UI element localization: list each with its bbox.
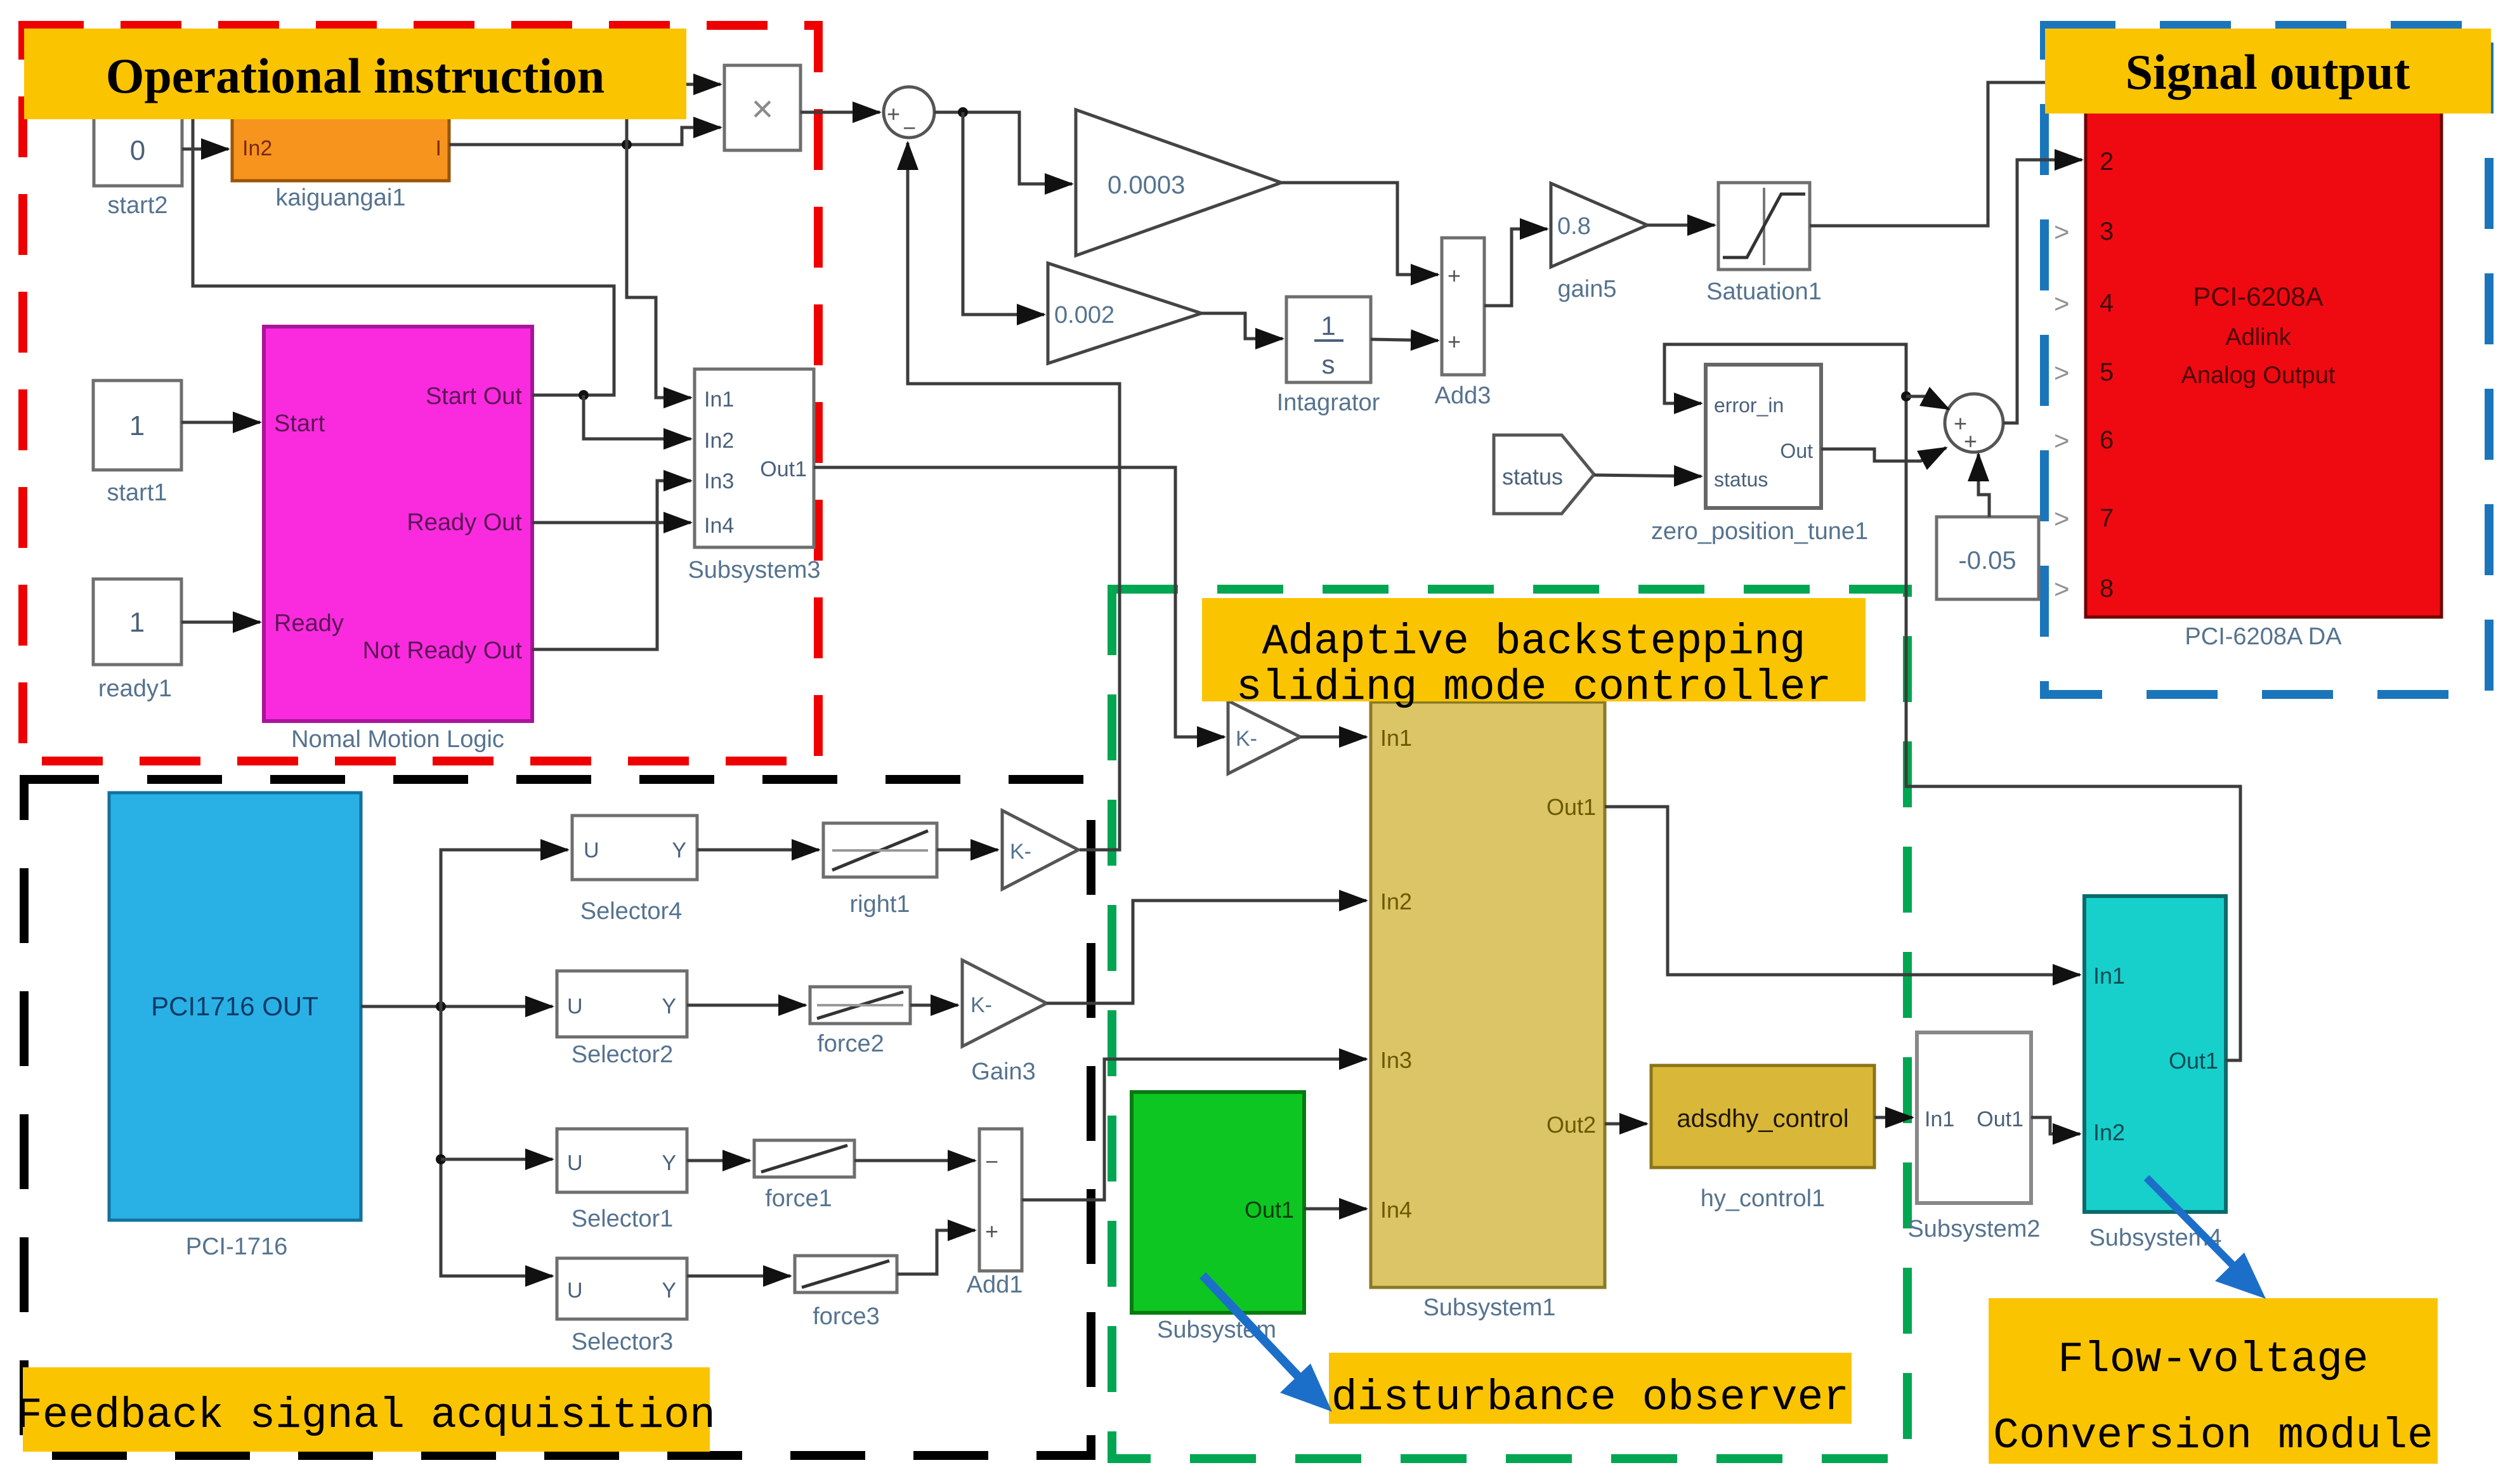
svg-text:0.0003: 0.0003 <box>1108 171 1185 199</box>
svg-text:Not Ready Out: Not Ready Out <box>363 637 523 664</box>
svg-text:Intagrator: Intagrator <box>1277 389 1380 416</box>
svg-text:U: U <box>567 1279 583 1303</box>
label disturbance observer <box>1329 1353 1852 1424</box>
svg-text:force3: force3 <box>813 1303 880 1330</box>
subsystem Subsystem4 <box>2084 896 2226 1251</box>
svg-text:In1: In1 <box>1925 1107 1954 1131</box>
subsystem zero_position_tune1 <box>1651 365 1868 545</box>
svg-text:×: × <box>751 88 773 130</box>
wire -0.05 to sum2 bottom <box>1978 454 1989 517</box>
wire start2 to kaiguangai1 In2 <box>182 148 228 151</box>
svg-text:8: 8 <box>2100 575 2114 602</box>
wire adsdhy_control to Subsystem2 <box>1874 1116 1912 1119</box>
subsystem adsdhy_control / hy_control1 <box>1651 1065 1874 1212</box>
svg-text:+: + <box>985 1218 998 1244</box>
wire Not Ready Out to Subsystem3 In3 <box>532 481 691 649</box>
svg-text:s: s <box>1322 349 1335 379</box>
svg-text:Ready Out: Ready Out <box>407 509 522 536</box>
saturation Satuation1 <box>1706 183 1822 305</box>
wire Selector1 to force1 <box>687 1159 750 1162</box>
selector Selector3 <box>557 1258 687 1355</box>
label Feedback signal acquisition <box>16 1367 716 1452</box>
integrator Intagrator <box>1277 297 1380 416</box>
label Operational instruction <box>24 29 686 119</box>
wire zero_position_tune1 Out to sum2 <box>1821 448 1946 461</box>
wire force3 to Add1 plus <box>897 1230 975 1274</box>
svg-text:K-: K- <box>1010 840 1031 864</box>
subsystem Subsystem1 <box>1371 702 1605 1321</box>
svg-text:U: U <box>567 994 583 1019</box>
svg-text:PCI-1716: PCI-1716 <box>186 1233 288 1260</box>
svg-text:+: + <box>1448 329 1461 355</box>
svg-text:In4: In4 <box>1380 1197 1412 1223</box>
wire Subsystem4 Out1 back to zero_position_tune1 error_in <box>1664 344 2240 1060</box>
wire force1 to Add1 minus <box>854 1159 975 1162</box>
svg-text:U: U <box>567 1151 583 1175</box>
black dashed group box: Feedback signal acquisition region <box>24 779 1091 1455</box>
wire status tag to zero_position_tune1 status <box>1594 475 1701 476</box>
adder Add1 <box>967 1129 1023 1298</box>
svg-text:7: 7 <box>2100 504 2114 532</box>
gain 0.0003 <box>1076 110 1281 256</box>
svg-text:+: + <box>887 101 900 127</box>
svg-text:+: + <box>1964 428 1977 454</box>
svg-text:In2: In2 <box>1380 888 1412 914</box>
svg-text:Add1: Add1 <box>967 1272 1023 1298</box>
svg-text:zero_position_tune1: zero_position_tune1 <box>1651 518 1868 545</box>
svg-text:Out1: Out1 <box>1977 1107 2023 1131</box>
wire position feedback from right1 gain to sum1 minus <box>908 143 1120 850</box>
svg-text:Feedback signal acquisition: Feedback signal acquisition <box>16 1391 716 1440</box>
svg-text:Out2: Out2 <box>1546 1112 1596 1138</box>
svg-text:Selector3: Selector3 <box>572 1329 674 1355</box>
node junction after sum1 <box>958 107 968 117</box>
wire gain 0.0003 to Add3 top <box>1281 183 1438 275</box>
svg-text:adsdhy_control: adsdhy_control <box>1677 1105 1848 1133</box>
svg-text:Analog Output: Analog Output <box>2181 362 2336 389</box>
wire right1 to K- gain <box>937 849 998 852</box>
svg-text:hy_control1: hy_control1 <box>1701 1185 1825 1212</box>
svg-text:3: 3 <box>2100 218 2114 245</box>
svg-text:Out1: Out1 <box>760 457 807 481</box>
svg-text:In2: In2 <box>242 136 272 160</box>
svg-text:PCI-6208A: PCI-6208A <box>2193 282 2323 311</box>
svg-text:Out1: Out1 <box>1546 794 1596 820</box>
svg-text:In2: In2 <box>2093 1119 2125 1145</box>
red dashed group box: Operational instruction region <box>23 25 818 761</box>
sum1 circle <box>884 87 934 141</box>
constant ready1 <box>93 579 181 702</box>
svg-text:In1: In1 <box>1380 725 1412 751</box>
annotation arrow to Flow-voltage label <box>2147 1178 2266 1299</box>
svg-text:>: > <box>2054 426 2070 455</box>
wire start1 to Start <box>181 421 260 424</box>
node junction on I wire <box>622 140 632 150</box>
sum2 circle <box>1945 394 2003 454</box>
svg-text:Y: Y <box>662 1279 676 1303</box>
subsystem green Subsystem (disturbance observer) <box>1132 1092 1304 1343</box>
svg-text:In2: In2 <box>704 429 734 453</box>
svg-text:−: − <box>985 1149 998 1175</box>
wire force2 to Gain3 <box>910 1004 958 1007</box>
svg-text:Flow-voltage: Flow-voltage <box>2058 1336 2369 1384</box>
svg-text:Out: Out <box>1780 439 1813 462</box>
wire Subsystem2 to Subsystem4 In2 <box>2031 1117 2080 1134</box>
svg-text:Selector2: Selector2 <box>572 1041 674 1068</box>
blue dashed group box: Signal output region <box>2044 25 2489 694</box>
wire Subsystem3 Out1 to K- gain <box>814 467 1224 737</box>
svg-text:>: > <box>2054 217 2070 247</box>
subsystem Subsystem2 <box>1907 1032 2040 1242</box>
wire branch to sum2 top input <box>1906 396 1949 409</box>
constant start1 <box>93 381 181 506</box>
svg-text:2: 2 <box>2100 148 2114 176</box>
wire Subsystem1 Out2 to adsdhy_control <box>1605 1123 1647 1126</box>
selector Selector2 <box>557 971 687 1068</box>
wire Selector3 to force3 <box>687 1275 790 1278</box>
svg-text:Add3: Add3 <box>1435 382 1491 409</box>
svg-text:error_in: error_in <box>1714 394 1784 417</box>
svg-text:Subsystem3: Subsystem3 <box>688 557 820 583</box>
wire Satuation1 to PCI-6208A port1 <box>1810 82 2082 226</box>
output device PCI-6208A DA <box>2054 101 2441 650</box>
svg-text:1: 1 <box>1321 311 1335 341</box>
svg-text:Satuation1: Satuation1 <box>1706 278 1822 305</box>
svg-text:Ready: Ready <box>274 610 344 637</box>
wire K- gain to Subsystem1 In1 <box>1300 736 1366 739</box>
svg-text:Signal output: Signal output <box>2126 44 2410 100</box>
svg-text:U: U <box>584 838 599 862</box>
svg-text:I: I <box>436 136 441 160</box>
wire Add1 to Subsystem1 In3 <box>1022 1059 1366 1200</box>
constant -0.05 <box>1937 517 2039 599</box>
svg-text:start2: start2 <box>107 192 167 219</box>
svg-text:6: 6 <box>2100 426 2114 454</box>
svg-text:status: status <box>1714 468 1768 491</box>
subsystem Subsystem3 <box>688 369 820 583</box>
svg-text:Y: Y <box>662 1151 676 1175</box>
svg-text:gain5: gain5 <box>1558 276 1617 303</box>
wire product to sum1 <box>801 111 880 114</box>
svg-text:1: 1 <box>129 607 145 638</box>
subsystem Nomal Motion Logic <box>264 327 532 753</box>
svg-text:Start: Start <box>274 410 325 437</box>
svg-text:Operational instruction: Operational instruction <box>106 48 605 103</box>
svg-text:0.8: 0.8 <box>1557 213 1591 240</box>
svg-text:>: > <box>2054 358 2070 387</box>
wire Ready Out to Subsystem3 In4 <box>532 521 691 524</box>
svg-text:PCI-6208A DA: PCI-6208A DA <box>2185 623 2342 650</box>
svg-text:kaiguangai1: kaiguangai1 <box>276 185 406 211</box>
lookup right1 <box>823 823 937 918</box>
node junction on PCI-1716 wire <box>436 1001 446 1012</box>
gain5 <box>1551 183 1647 303</box>
svg-text:−: − <box>903 115 916 141</box>
lookup force2 <box>810 987 910 1057</box>
wire sum1 out to gain 0.0003 <box>934 112 1072 184</box>
node junction at Selector1 branch <box>436 1154 446 1164</box>
svg-text:Subsystem1: Subsystem1 <box>1423 1294 1555 1321</box>
svg-text:Start Out: Start Out <box>426 383 522 410</box>
svg-text:In3: In3 <box>1380 1047 1412 1073</box>
svg-text:Selector1: Selector1 <box>572 1206 674 1232</box>
adder Add3 <box>1435 238 1491 409</box>
wire branch to Selector1 <box>441 1158 552 1161</box>
wire branch to gain 0.002 <box>963 112 1044 315</box>
wire Add3 to gain5 <box>1484 229 1547 306</box>
gain Gain3 <box>962 960 1047 1085</box>
lookup force3 <box>795 1256 897 1330</box>
annotation arrow to disturbance observer <box>1203 1275 1332 1412</box>
label Flow-voltage Conversion module <box>1989 1298 2438 1464</box>
svg-text:Y: Y <box>672 838 686 862</box>
wire Start Out net: to product input 1 (runs under label) <box>193 84 721 395</box>
green dashed group box: controller / disturbance observer region <box>1112 589 1907 1459</box>
svg-text:Y: Y <box>662 994 676 1019</box>
svg-text:K-: K- <box>971 993 992 1017</box>
svg-text:disturbance observer: disturbance observer <box>1331 1374 1849 1422</box>
wire Selector2 to force2 <box>687 1004 806 1007</box>
gain 0.002 <box>1048 263 1201 363</box>
svg-text:sliding mode controller: sliding mode controller <box>1236 663 1832 712</box>
svg-text:Adaptive backstepping: Adaptive backstepping <box>1262 618 1806 667</box>
svg-text:status: status <box>1502 464 1563 490</box>
svg-text:Out1: Out1 <box>1245 1197 1294 1223</box>
from tag status <box>1494 435 1594 514</box>
svg-text:Selector4: Selector4 <box>580 898 683 925</box>
svg-text:>: > <box>2054 574 2070 604</box>
subsystem kaiguangai1 <box>232 113 449 211</box>
svg-text:start1: start1 <box>107 479 167 506</box>
svg-text:In3: In3 <box>704 469 734 493</box>
wire Intagrator to Add3 bottom <box>1371 339 1438 341</box>
svg-text:0: 0 <box>130 135 145 166</box>
wire gain 0.002 to Intagrator <box>1201 313 1283 339</box>
selector Selector1 <box>557 1129 687 1232</box>
label Adaptive backstepping sliding mode controller <box>1202 598 1866 712</box>
wire Subsystem1 Out1 to Subsystem4 In1 <box>1605 807 2080 975</box>
svg-text:5: 5 <box>2100 358 2114 386</box>
node junction on Start Out wire <box>578 390 589 400</box>
wire Selector4 to right1 <box>697 849 819 852</box>
svg-text:>: > <box>2054 289 2070 318</box>
svg-text:force1: force1 <box>765 1185 832 1212</box>
constant start2 <box>94 113 182 219</box>
svg-text:1: 1 <box>129 410 145 441</box>
wire Start Out branch to Subsystem3 In2 <box>584 395 691 439</box>
gain K- (In1 path) <box>1228 701 1300 774</box>
svg-text:In1: In1 <box>704 387 734 412</box>
wire branch down to Selector3 <box>441 1006 552 1276</box>
svg-text:In4: In4 <box>704 514 734 538</box>
svg-text:Adlink: Adlink <box>2225 324 2291 351</box>
wire green Subsystem Out1 to Subsystem1 In4 <box>1304 1207 1366 1211</box>
svg-text:ready1: ready1 <box>98 675 172 702</box>
wire Gain3 to Subsystem1 In2 <box>1047 901 1366 1003</box>
svg-text:Out1: Out1 <box>2169 1048 2218 1074</box>
svg-text:PCI1716 OUT: PCI1716 OUT <box>151 991 318 1021</box>
wire riser to Subsystem3 In1 <box>627 89 691 398</box>
svg-text:+: + <box>1448 263 1461 289</box>
svg-text:force2: force2 <box>817 1031 884 1057</box>
node junction on return wire <box>1901 391 1911 401</box>
svg-text:4: 4 <box>2100 289 2114 317</box>
wire branch up to Selector4 <box>441 850 568 1006</box>
svg-text:In1: In1 <box>2093 963 2125 989</box>
svg-text:>: > <box>2054 504 2070 533</box>
svg-text:0.002: 0.002 <box>1054 302 1114 329</box>
wire PCI-1716 out to Selector2 <box>361 1005 552 1008</box>
input device PCI-1716 <box>109 793 361 1260</box>
svg-text:Conversion module: Conversion module <box>1993 1412 2433 1461</box>
product block <box>724 65 801 150</box>
svg-text:Subsystem2: Subsystem2 <box>1907 1216 2040 1242</box>
label Signal output <box>2045 29 2491 114</box>
selector Selector4 <box>572 816 697 925</box>
lookup force1 <box>754 1140 854 1212</box>
svg-text:right1: right1 <box>849 891 910 918</box>
wire ready1 to Ready <box>181 621 260 624</box>
wire gain5 to Satuation1 <box>1647 224 1715 227</box>
svg-text:-0.05: -0.05 <box>1958 547 2016 575</box>
svg-text:K-: K- <box>1236 727 1257 751</box>
wire sum2 out to PCI-6208A port2 <box>2003 160 2082 423</box>
gain K- (right1 path) <box>1002 810 1078 889</box>
svg-text:Nomal Motion Logic: Nomal Motion Logic <box>291 726 504 753</box>
svg-text:Gain3: Gain3 <box>971 1058 1035 1085</box>
wire kaiguangai1 I to product input 2 <box>449 127 721 145</box>
